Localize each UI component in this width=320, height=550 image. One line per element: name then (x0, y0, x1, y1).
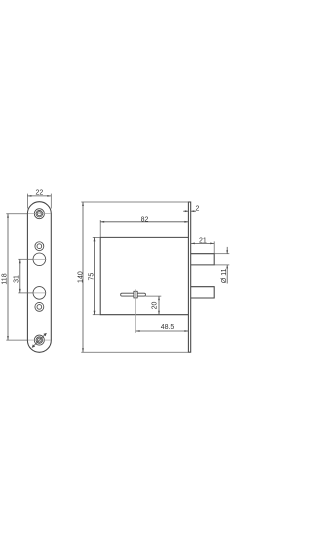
dimension 2 (plate thickness) (183, 206, 199, 213)
svg-text:Ø 11: Ø 11 (221, 268, 228, 283)
svg-text:140: 140 (77, 271, 84, 283)
svg-text:48.5: 48.5 (161, 324, 175, 331)
key slot vertical centerline + 48.5 extension (135, 289, 137, 333)
dimension 22 (plate width) (27, 189, 51, 208)
dimension 140 (plate height) (77, 202, 188, 352)
dimension 31 (bolt hole spacing) (14, 259, 33, 293)
centerline through bolt hole lower (33, 292, 47, 294)
centerline through screw hole bottom (28, 339, 51, 341)
centerline through screw hole top (28, 213, 51, 215)
svg-text:20: 20 (152, 302, 159, 310)
dimension 75 (body height) (88, 237, 100, 314)
bolt hole lower (large) (33, 287, 46, 300)
small hole upper (35, 242, 44, 251)
dimension 82 (body width) (100, 216, 188, 237)
dimension 118 (screw hole spacing) (1, 214, 27, 340)
faceplate outline (27, 202, 51, 353)
svg-text:31: 31 (14, 275, 21, 283)
diagonal double arrow through bottom screw hole (32, 333, 47, 348)
lock body (100, 237, 188, 314)
svg-text:75: 75 (88, 273, 95, 281)
svg-text:21: 21 (199, 237, 207, 244)
key slot bar (121, 293, 146, 296)
key slot middle block (134, 291, 137, 298)
screw hole top (34, 209, 44, 219)
dimension 21 (bolt protrusion) (191, 237, 214, 253)
dimension D11 (bolt diameter) (214, 247, 229, 284)
dimension 20 (slot to body bottom) (145, 296, 161, 315)
screw hole bottom (34, 335, 44, 345)
faceplate side (vertical plate) (188, 202, 190, 352)
bolt hole upper (large) (33, 253, 46, 266)
bolt lower (191, 287, 215, 298)
svg-text:118: 118 (1, 273, 8, 284)
dimension 48.5 (slot to plate) (136, 324, 189, 332)
svg-text:22: 22 (36, 189, 44, 196)
small hole lower (35, 302, 44, 311)
svg-text:82: 82 (141, 216, 149, 223)
bolt upper (191, 254, 215, 265)
centerline through bolt hole upper (33, 258, 47, 260)
svg-text:2: 2 (195, 206, 199, 213)
